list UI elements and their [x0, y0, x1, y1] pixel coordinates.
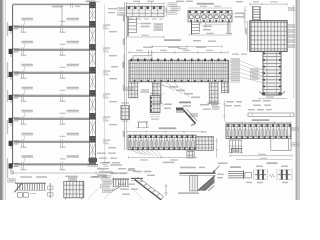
block P1 — [121, 102, 130, 121]
mid bottom small member — [48, 183, 54, 198]
comb detail G1 — [14, 183, 46, 192]
dim line between D and E — [243, 6, 246, 33]
label box under post3 — [213, 106, 220, 109]
crane beam level 2 — [14, 49, 96, 50]
crane beam level 4 — [14, 95, 96, 96]
lintel D bottom studs — [190, 20, 230, 22]
leader texts near column B top — [86, 0, 118, 148]
corbel H3 bottom label — [178, 192, 199, 194]
diagonal strut H2 — [135, 178, 164, 200]
leader label boxes between C and D — [168, 3, 180, 14]
diagonal strut H2 top plate — [131, 178, 143, 180]
dim ticks at beam 4 — [21, 94, 27, 102]
label zakladnaya 6 right — [67, 133, 80, 135]
embed plate connection 5 — [9, 117, 20, 126]
wedge detail (anchor with bent bar) — [176, 108, 197, 126]
label boxes right of C ladder — [154, 23, 163, 31]
bottom right dim line 2 — [236, 158, 292, 160]
label zakladnaya 7 right — [67, 155, 80, 157]
dim text on vertical string at 84.5 — [123, 85, 125, 92]
slab E left leader labels with fan — [251, 68, 265, 79]
post3 footing bar — [208, 103, 220, 104]
slab E bottom dim — [258, 96, 287, 98]
top beam label — [52, 3, 80, 9]
dim ticks at beam 5 — [21, 117, 27, 125]
flat tie bar above F3 — [248, 113, 294, 117]
column B lattice bay 4 — [90, 75, 96, 89]
crane beam level 1 — [14, 26, 96, 27]
beam F1 body — [129, 60, 229, 82]
embed plate connection 4 — [9, 94, 20, 103]
bottom texts row — [20, 164, 122, 178]
beam F2 right extension block — [196, 137, 214, 151]
embed plate connection 6 — [9, 140, 20, 149]
bench detail under P1 — [137, 122, 150, 128]
slab E stem mesh — [262, 51, 281, 95]
column B base leader texts — [96, 165, 113, 176]
beam F1 leader fan to labels below — [150, 83, 200, 99]
beam F1 left dim vertical — [122, 54, 124, 84]
label zakladnaya 3 left — [22, 64, 34, 71]
beam F1 left end post — [129, 82, 138, 98]
level mark 6 right of column — [103, 139, 111, 144]
beam F1 right label stack — [229, 59, 240, 83]
beam F2 bottom dim — [129, 156, 197, 163]
vertical dim right of F2 — [216, 138, 218, 158]
section title A-A — [179, 102, 191, 104]
dim text above F2 right — [201, 131, 207, 132]
dim ticks at beam 3 — [21, 71, 27, 79]
hanger detail right 2 — [60, 44, 66, 56]
section label B-B left — [230, 166, 241, 168]
detail H0 labels — [92, 176, 107, 178]
column B lattice bay 7 — [90, 144, 96, 157]
fan leaders from F1 labels to slab stem — [240, 61, 263, 83]
embed plate connection 7 — [9, 163, 20, 172]
slab E bottom hooks — [259, 92, 285, 96]
beam F1 left upper notch — [133, 50, 152, 60]
slab E right leader labels — [288, 8, 295, 48]
comb G1 base plates — [18, 193, 37, 198]
beam F1 post 2 — [152, 82, 161, 103]
bottom right dim line 1 — [230, 154, 292, 157]
beam F3 dim above — [226, 121, 291, 123]
embed plate connection 3 — [9, 71, 20, 80]
beam F2 title — [159, 127, 177, 129]
lintel D body — [188, 11, 232, 23]
lintel D bottom dim — [188, 33, 232, 35]
column B lattice bay 2 — [90, 29, 96, 43]
lintel C right dim — [166, 6, 168, 17]
beam F3 body — [226, 124, 291, 139]
beam F1 top studs — [131, 59, 227, 62]
column section B chords — [89, 2, 91, 165]
post2 footing bar — [151, 103, 163, 104]
level circle mark bottom left — [10, 171, 13, 174]
right tick column near H2 — [165, 184, 168, 196]
extra text rows bottom middle-left — [118, 184, 138, 195]
beam F2 top studs — [129, 135, 193, 138]
hanger detail right 6 — [60, 136, 66, 148]
wedge leader label box — [191, 114, 198, 117]
elevation bottom dim line — [13, 172, 127, 175]
column B embed block 6 — [89, 113, 96, 119]
crane beam level 6 — [14, 141, 96, 142]
scan edge right band — [295, 0, 300, 200]
dim ticks at beam 6 — [21, 140, 27, 148]
column B base — [87, 158, 98, 167]
hanger detail right 5 — [60, 113, 66, 125]
lintel C dim line above — [127, 1, 165, 5]
weld detail I3 plate stack — [228, 170, 251, 179]
lintel D title — [197, 3, 215, 5]
corbel H3 diagonal brace — [198, 176, 215, 191]
beam F1 right upper small labels — [232, 54, 247, 55]
label zakladnaya 6 left — [22, 133, 34, 140]
label zakladnaya 5 left — [22, 110, 34, 117]
G2 label box — [69, 177, 77, 180]
tiny dims under lintel C — [128, 18, 163, 19]
elevation dim string x=104 — [104, 4, 106, 163]
texts above slab D between — [176, 1, 243, 3]
level mark 3 right of column — [103, 70, 111, 75]
column B embed block 3 — [89, 44, 96, 50]
column B embed block 8 — [89, 158, 96, 164]
embed plate connection 2 — [9, 48, 20, 57]
long dim under C/D — [152, 45, 222, 49]
dim text on vertical string at 61.5 — [123, 62, 125, 69]
beam F3 title — [252, 119, 270, 121]
beam F1 bottom studs — [134, 80, 223, 82]
H2 labels — [133, 171, 155, 176]
beam F3 right end outline — [271, 139, 291, 151]
embed plate connection 1 — [9, 25, 20, 34]
long vertical dimension lines — [125, 2, 127, 150]
dim ticks at beam 2 — [21, 48, 27, 56]
top dim marks above column B — [85, 1, 100, 3]
dim line left of F3 — [223, 100, 225, 121]
dim ticks at beam 7 — [21, 162, 27, 170]
texts right of wedge — [200, 104, 218, 110]
level mark 7 right of column — [103, 162, 111, 167]
column B lattice bay 5 — [90, 98, 96, 112]
dim text on vertical string at 107.5 — [123, 108, 125, 115]
dim ticks at beam 1 — [21, 25, 27, 33]
corbel H3 top bar — [179, 173, 215, 175]
beam F3 right small label — [292, 128, 299, 147]
beam F1 dim above — [129, 50, 228, 54]
left margin vertical text — [7, 62, 8, 178]
lintel C bottom dim — [127, 35, 165, 39]
subtitle under C area — [164, 39, 181, 41]
label zakladnaya 4 right — [67, 87, 80, 89]
hanger detail right 7 — [60, 158, 66, 170]
weld detail I1 — [254, 169, 267, 181]
column B lattice bay 3 — [90, 52, 96, 66]
label zakladnaya 5 right — [67, 110, 80, 112]
column B lattice bay 6 — [90, 121, 96, 135]
hanger detail right 3 — [60, 67, 66, 79]
slab E wide mesh — [250, 21, 287, 52]
dim text on vertical string at 15 — [123, 15, 125, 22]
lintel C end ladder — [128, 17, 137, 36]
beam F3 bottom studs — [230, 136, 288, 138]
label zakladnaya 1 left — [22, 18, 34, 25]
extra A-A detail text row — [183, 105, 191, 106]
beam F2 dim above — [127, 131, 202, 133]
level mark 2 right of column — [103, 47, 111, 52]
crane beam level 5 — [14, 118, 96, 119]
column B embed block 5 — [89, 90, 96, 96]
slab E access ladder — [253, 6, 260, 21]
comb G1 label box — [8, 179, 15, 182]
section label B-B right — [267, 162, 278, 164]
label boxes left of lintel C — [118, 7, 125, 16]
label zakladnaya 7 left — [22, 155, 34, 162]
lintel C ladder leader labels — [137, 23, 151, 28]
P2 right leader labels — [162, 104, 172, 110]
crane beam level 7 — [14, 163, 96, 164]
extra left margin vertical texts — [7, 22, 8, 102]
label zakladnaya 2 left — [22, 41, 34, 48]
level mark 4 right of column — [103, 93, 111, 98]
misc labels below C/D area — [193, 40, 216, 42]
weld detail I2 — [277, 169, 292, 181]
slab E left dim column — [246, 21, 248, 52]
lintel D right leader labels — [232, 13, 245, 18]
beam F3 labels above — [225, 100, 272, 110]
post label boxes — [126, 88, 149, 93]
E stem right long dim — [293, 5, 295, 98]
beam F3 top studs — [227, 124, 290, 127]
label zakladnaya 1 right — [67, 18, 80, 20]
lintel D sub dim — [205, 23, 230, 25]
label zakladnaya 2 right — [67, 41, 80, 43]
corbel H3 hanger posts — [190, 176, 198, 191]
lintel C body — [127, 6, 165, 17]
lintel D dim above — [188, 6, 232, 8]
column B embed block 2 — [89, 21, 96, 27]
column B embed block 4 — [89, 67, 96, 73]
beam F3 left comb below — [229, 140, 243, 153]
grid block G2 — [64, 181, 84, 199]
beam F1 right end post — [222, 82, 229, 93]
beam F2 leader fan below — [131, 150, 162, 157]
comb detail H1 — [112, 179, 129, 191]
slab E top dim — [250, 1, 287, 5]
beam F1 post 3 — [209, 82, 218, 103]
faint gusset outlines bottom middle — [88, 181, 143, 200]
column B embed block 1 — [89, 2, 96, 8]
lintel D right post — [226, 22, 232, 33]
dim text on vertical string at 38.5 — [123, 39, 125, 46]
corbel H3 texts above — [180, 163, 228, 169]
H1 labels — [110, 170, 136, 175]
hanger detail right 1 — [60, 21, 66, 33]
ticks between weld details — [270, 174, 275, 178]
dim text on vertical string at 130.5 — [123, 131, 125, 138]
beam F2 lower-right post — [187, 151, 195, 159]
weld detail labels — [246, 166, 288, 184]
hanger detail right 4 — [60, 90, 66, 102]
crane beam level 3 — [14, 72, 96, 73]
label zakladnaya 3 right — [67, 64, 80, 66]
elevation top beam — [13, 4, 96, 5]
beam F2 bottom studs — [132, 148, 196, 150]
misc labels right of D ladder — [200, 23, 212, 31]
level mark 5 right of column — [103, 116, 111, 121]
scan edge left dark band — [0, 0, 3, 200]
beam F2 body — [128, 135, 196, 150]
bench I0 — [231, 149, 243, 154]
beam F1 texts above — [143, 47, 206, 49]
corbel H3 arrow leader — [213, 166, 220, 174]
lintel D left ladder — [192, 22, 200, 35]
column B embed block 7 — [89, 136, 96, 142]
corbel right small texts — [217, 174, 224, 179]
column elevation left chord — [12, 5, 14, 166]
level mark 1 right of column — [103, 24, 111, 29]
sheet border line left — [4, 0, 6, 200]
block P2 — [150, 93, 165, 120]
label zakladnaya 4 left — [22, 87, 34, 94]
label box stack under column B base — [101, 173, 114, 193]
column B lattice bay 1 — [90, 10, 96, 20]
elevation right chord (top bay) — [61, 5, 63, 27]
extra bottom-left text rows — [97, 153, 135, 170]
